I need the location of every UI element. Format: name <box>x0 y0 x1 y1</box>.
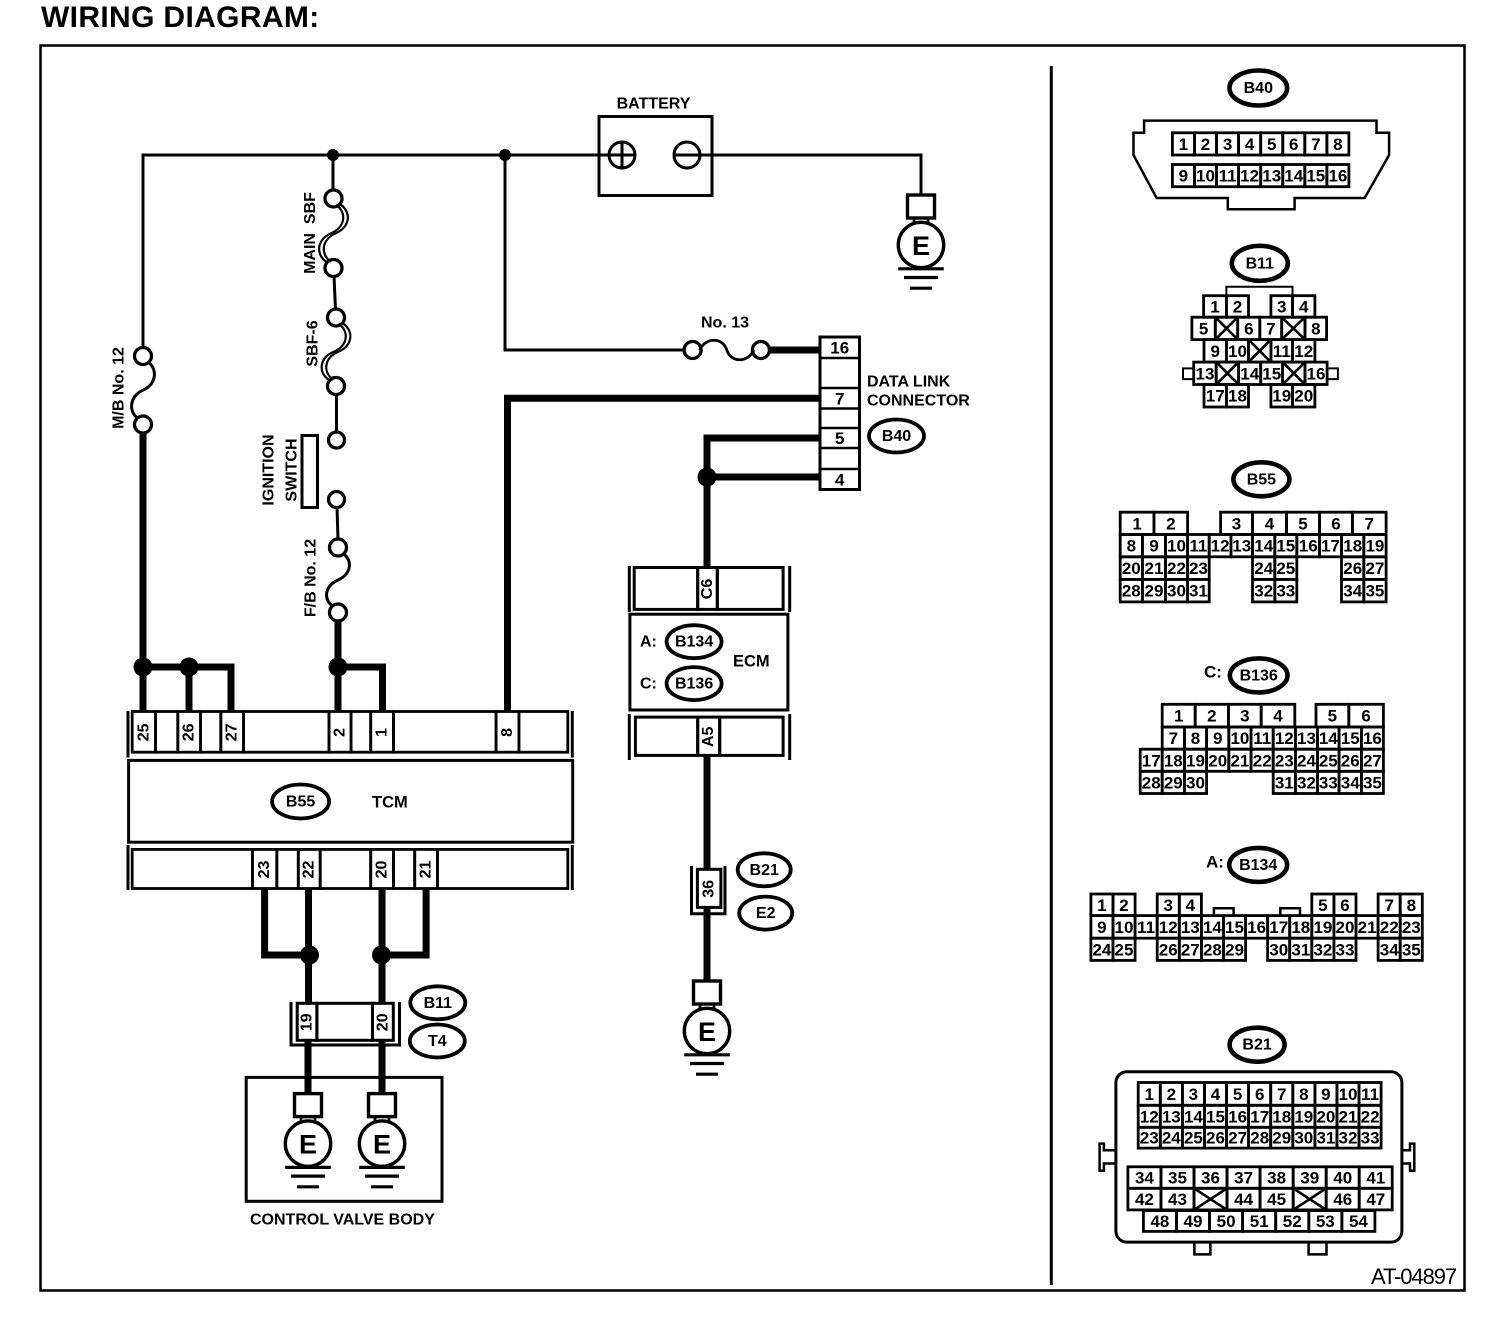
svg-text:8: 8 <box>1299 1085 1308 1104</box>
svg-text:CONTROL VALVE BODY: CONTROL VALVE BODY <box>250 1212 435 1229</box>
connector B40 pinout housing <box>1134 121 1390 210</box>
svg-text:35: 35 <box>1168 1169 1187 1188</box>
svg-text:6: 6 <box>1255 1085 1264 1104</box>
svg-text:34: 34 <box>1380 940 1399 959</box>
svg-text:2: 2 <box>1166 514 1175 533</box>
svg-text:38: 38 <box>1267 1169 1286 1188</box>
svg-text:22: 22 <box>1253 751 1272 770</box>
svg-text:21: 21 <box>1230 751 1249 770</box>
svg-text:42: 42 <box>1135 1190 1154 1209</box>
svg-text:AT-04897: AT-04897 <box>1371 1264 1457 1289</box>
svg-text:12: 12 <box>1159 918 1178 937</box>
svg-text:21: 21 <box>1358 918 1377 937</box>
svg-text:27: 27 <box>1363 751 1382 770</box>
B21 right key tab <box>1402 1144 1414 1171</box>
svg-text:5: 5 <box>1267 135 1276 154</box>
ground E (battery) <box>898 195 944 288</box>
svg-text:CONNECTOR: CONNECTOR <box>867 393 970 410</box>
svg-text:3: 3 <box>1163 896 1172 915</box>
junction 22/23 <box>300 946 319 965</box>
B55 pins 20-23 <box>1120 557 1142 580</box>
ECM connector row C6 <box>629 566 789 612</box>
B55 pins 3-7 <box>1221 512 1253 534</box>
junction at pin 25 <box>134 658 153 677</box>
svg-text:4: 4 <box>1265 514 1275 533</box>
svg-text:19: 19 <box>1294 1107 1313 1126</box>
svg-text:1: 1 <box>1174 707 1183 726</box>
junction 20/21 <box>372 946 391 965</box>
svg-text:37: 37 <box>1234 1169 1253 1188</box>
wire No.13 branch <box>505 155 684 350</box>
svg-text:19: 19 <box>1365 537 1384 556</box>
svg-text:18: 18 <box>1291 918 1310 937</box>
svg-text:21: 21 <box>1145 559 1164 578</box>
svg-text:14: 14 <box>1254 537 1273 556</box>
svg-text:15: 15 <box>1276 537 1295 556</box>
wire TCM pin 22 down to T4 pin 19 (thick) <box>305 889 312 1004</box>
svg-text:2: 2 <box>1167 1085 1176 1104</box>
B11 pins 1-4 <box>1204 296 1227 318</box>
svg-text:SWITCH: SWITCH <box>284 438 301 501</box>
svg-text:22: 22 <box>1361 1107 1380 1126</box>
svg-text:26: 26 <box>1206 1129 1225 1148</box>
svg-text:50: 50 <box>1217 1212 1236 1231</box>
B21 pins 48-54 <box>1143 1211 1176 1232</box>
fuse No. 13 <box>684 340 769 360</box>
svg-text:5: 5 <box>1199 319 1208 338</box>
svg-text:F/B No. 12: F/B No. 12 <box>303 539 320 617</box>
column divider <box>1050 66 1053 1285</box>
svg-text:11: 11 <box>1273 342 1291 361</box>
svg-text:B55: B55 <box>286 794 315 811</box>
svg-text:26: 26 <box>1341 751 1360 770</box>
svg-text:1: 1 <box>1179 135 1188 154</box>
svg-text:7: 7 <box>1277 1085 1286 1104</box>
inline connector 36 <box>692 866 726 914</box>
B134 pins 3-4 <box>1157 894 1179 916</box>
svg-text:13: 13 <box>1232 537 1251 556</box>
svg-text:B136: B136 <box>675 676 713 693</box>
svg-text:36: 36 <box>701 880 718 898</box>
svg-text:30: 30 <box>1186 773 1205 792</box>
svg-text:6: 6 <box>1331 514 1340 533</box>
svg-text:22: 22 <box>301 861 318 879</box>
oval B11 (pinout) <box>1232 246 1288 281</box>
svg-text:1: 1 <box>374 728 391 737</box>
svg-text:3: 3 <box>1223 135 1232 154</box>
svg-text:3: 3 <box>1232 514 1241 533</box>
ground E (E2) <box>684 981 730 1074</box>
svg-text:15: 15 <box>1306 167 1325 186</box>
B134 pins 1-2 <box>1091 894 1113 916</box>
TCM top connector row <box>128 711 572 758</box>
svg-text:10: 10 <box>1230 729 1249 748</box>
B11 pins 17-20 <box>1204 385 1226 408</box>
svg-text:4: 4 <box>1299 297 1309 316</box>
wire DLC pin 4 (thick) <box>707 474 820 481</box>
svg-text:16: 16 <box>1328 167 1347 186</box>
svg-text:19: 19 <box>1186 751 1205 770</box>
svg-text:25: 25 <box>1184 1129 1203 1148</box>
B55 pins 8-19 <box>1120 535 1142 557</box>
junction top-2 <box>499 149 511 161</box>
junction at pin 2 <box>329 658 348 677</box>
svg-text:4: 4 <box>835 470 845 489</box>
svg-text:29: 29 <box>1164 773 1183 792</box>
svg-text:19: 19 <box>299 1013 316 1031</box>
B134 top tabs <box>1214 908 1234 915</box>
fuse F/B No. 12 <box>327 539 350 621</box>
wire T4 pin 20 to valve body solenoid (thick) <box>379 1040 386 1093</box>
svg-text:53: 53 <box>1316 1212 1335 1231</box>
svg-text:33: 33 <box>1319 773 1338 792</box>
oval B21 (pinout) <box>1230 1028 1285 1062</box>
svg-text:A:: A: <box>1206 853 1224 872</box>
B136 pins 5-6 <box>1316 704 1349 727</box>
svg-text:B40: B40 <box>882 428 911 445</box>
oval B21 (schematic) <box>738 853 791 886</box>
B55 pins 26-27 <box>1342 557 1364 580</box>
svg-text:30: 30 <box>1167 582 1186 601</box>
svg-text:11: 11 <box>1253 729 1271 748</box>
B21 bottom tabs <box>1194 1242 1210 1254</box>
wire ECM A5 to connector 36 (thick) <box>704 755 711 869</box>
svg-text:16: 16 <box>1247 918 1266 937</box>
B134 pins 26-29 <box>1157 938 1179 960</box>
svg-text:4: 4 <box>1245 135 1255 154</box>
svg-text:39: 39 <box>1300 1169 1319 1188</box>
svg-text:10: 10 <box>1228 342 1247 361</box>
svg-text:4: 4 <box>1273 707 1283 726</box>
svg-text:18: 18 <box>1228 387 1247 406</box>
svg-text:34: 34 <box>1341 773 1360 792</box>
svg-text:6: 6 <box>1244 319 1253 338</box>
svg-text:E: E <box>912 231 930 261</box>
svg-text:9: 9 <box>1179 167 1188 186</box>
battery <box>599 96 712 196</box>
svg-text:45: 45 <box>1267 1190 1286 1209</box>
svg-text:33: 33 <box>1336 940 1355 959</box>
svg-text:30: 30 <box>1294 1129 1313 1148</box>
TCM bottom connector row <box>128 845 572 890</box>
svg-text:5: 5 <box>835 429 844 448</box>
svg-text:20: 20 <box>1336 918 1355 937</box>
svg-text:10: 10 <box>1339 1085 1358 1104</box>
svg-text:B11: B11 <box>424 995 453 1012</box>
svg-text:41: 41 <box>1366 1169 1385 1188</box>
svg-text:3: 3 <box>1240 707 1249 726</box>
svg-text:28: 28 <box>1142 773 1161 792</box>
svg-text:26: 26 <box>181 723 198 741</box>
svg-text:8: 8 <box>499 728 516 737</box>
svg-text:46: 46 <box>1333 1190 1352 1209</box>
svg-text:14: 14 <box>1240 364 1259 383</box>
svg-text:2: 2 <box>1233 297 1242 316</box>
oval B136 (pinout) <box>1230 658 1288 692</box>
svg-text:B134: B134 <box>675 634 713 651</box>
svg-text:32: 32 <box>1339 1129 1358 1148</box>
wire ignition switch to F/B No.12 <box>337 507 338 540</box>
wire F/B No.12 to TCM pin 2 (thick) <box>335 619 342 711</box>
ECM connector row A5 <box>629 714 789 760</box>
svg-text:16: 16 <box>1307 364 1326 383</box>
B136 pins 7-16 <box>1162 727 1184 749</box>
svg-text:8: 8 <box>1191 729 1200 748</box>
svg-text:23: 23 <box>256 861 273 879</box>
svg-text:23: 23 <box>1189 559 1208 578</box>
svg-text:48: 48 <box>1150 1212 1169 1231</box>
svg-text:23: 23 <box>1275 751 1294 770</box>
svg-text:13: 13 <box>1297 729 1316 748</box>
svg-text:17: 17 <box>1142 751 1161 770</box>
B11 pins 9-12 <box>1204 340 1226 363</box>
svg-text:35: 35 <box>1365 582 1384 601</box>
svg-text:25: 25 <box>1115 940 1134 959</box>
svg-text:C:: C: <box>1204 663 1222 682</box>
svg-text:B40: B40 <box>1244 80 1273 97</box>
svg-text:12: 12 <box>1275 729 1294 748</box>
svg-text:5: 5 <box>1318 896 1327 915</box>
svg-text:12: 12 <box>1294 342 1313 361</box>
svg-text:16: 16 <box>1363 729 1382 748</box>
wire branch to TCM pin 1 <box>338 667 383 711</box>
B55 pins 24-25 <box>1253 557 1275 580</box>
wire TCM junction bus 25-26-27 <box>143 667 231 711</box>
svg-text:BATTERY: BATTERY <box>617 96 691 113</box>
svg-text:15: 15 <box>1225 918 1244 937</box>
svg-text:2: 2 <box>332 728 349 737</box>
svg-text:4: 4 <box>1186 896 1196 915</box>
svg-text:12: 12 <box>1240 167 1259 186</box>
svg-text:40: 40 <box>1333 1169 1352 1188</box>
B134 pins 7-8 <box>1378 894 1400 916</box>
svg-text:20: 20 <box>1294 387 1313 406</box>
B55 pins 1-2 <box>1120 512 1154 534</box>
svg-text:B134: B134 <box>1239 857 1277 874</box>
svg-text:5: 5 <box>1233 1085 1242 1104</box>
B11 pins 13-16 <box>1194 362 1217 384</box>
junction top-1 <box>327 149 339 161</box>
svg-text:M/B No. 12: M/B No. 12 <box>111 347 128 429</box>
svg-text:ECM: ECM <box>733 653 770 671</box>
svg-text:26: 26 <box>1159 940 1178 959</box>
ignition switch <box>302 432 345 508</box>
svg-text:34: 34 <box>1135 1169 1154 1188</box>
svg-text:44: 44 <box>1234 1190 1253 1209</box>
B40 pins 1-8 <box>1172 133 1194 155</box>
wire TCM pin 23 down (thick) <box>265 889 310 956</box>
svg-text:12: 12 <box>1140 1107 1159 1126</box>
fuse SBF-6 <box>322 309 351 395</box>
svg-text:15: 15 <box>1341 729 1360 748</box>
svg-text:17: 17 <box>1206 387 1225 406</box>
svg-text:A:: A: <box>640 634 657 651</box>
svg-text:33: 33 <box>1361 1129 1380 1148</box>
svg-text:17: 17 <box>1269 918 1288 937</box>
svg-text:10: 10 <box>1167 537 1186 556</box>
wire DLC pin 7 to TCM pin 8 (thick) <box>508 398 821 711</box>
svg-text:TCM: TCM <box>372 794 408 812</box>
B55 pins 32-33 <box>1253 579 1275 602</box>
oval B55 (TCM) <box>272 785 329 819</box>
B134 pins 24-25 <box>1091 938 1113 960</box>
svg-text:C:: C: <box>640 676 657 693</box>
svg-text:SBF-6: SBF-6 <box>305 320 322 366</box>
svg-text:18: 18 <box>1164 751 1183 770</box>
svg-text:5: 5 <box>1328 707 1337 726</box>
B136 pins 28-30 <box>1140 771 1162 793</box>
svg-text:E2: E2 <box>756 905 776 922</box>
oval B55 (pinout) <box>1233 462 1289 496</box>
svg-text:13: 13 <box>1181 918 1200 937</box>
ECM body <box>630 614 788 710</box>
svg-text:27: 27 <box>224 723 241 741</box>
svg-text:9: 9 <box>1210 342 1219 361</box>
svg-text:7: 7 <box>1384 896 1393 915</box>
svg-text:20: 20 <box>1122 559 1141 578</box>
svg-text:3: 3 <box>1277 297 1286 316</box>
svg-text:18: 18 <box>1272 1107 1291 1126</box>
oval E2 (schematic) <box>739 897 792 930</box>
svg-text:15: 15 <box>1262 364 1281 383</box>
svg-text:9: 9 <box>1321 1085 1330 1104</box>
svg-text:35: 35 <box>1402 940 1421 959</box>
inline connector B11/T4 <box>291 1002 400 1045</box>
control valve body <box>246 1077 442 1201</box>
connector B21 housing <box>1116 1072 1402 1242</box>
svg-text:14: 14 <box>1203 918 1222 937</box>
svg-text:9: 9 <box>1097 918 1106 937</box>
B136 pins 17-27 <box>1140 749 1162 771</box>
wire DLC pin 5 and drop to ECM C6 (thick) <box>707 438 820 568</box>
svg-text:25: 25 <box>1319 751 1338 770</box>
svg-text:7: 7 <box>1169 729 1178 748</box>
svg-text:43: 43 <box>1168 1190 1187 1209</box>
svg-text:32: 32 <box>1297 773 1316 792</box>
svg-text:B21: B21 <box>1242 1037 1271 1054</box>
B40 pins 9-16 <box>1172 165 1194 187</box>
svg-text:17: 17 <box>1321 537 1340 556</box>
svg-text:18: 18 <box>1343 537 1362 556</box>
svg-text:54: 54 <box>1349 1212 1368 1231</box>
svg-text:23: 23 <box>1140 1129 1159 1148</box>
wire M/B No.12 to TCM pin 25 (thick) <box>140 430 147 711</box>
B11 pins 5-8 <box>1192 317 1215 339</box>
svg-text:16: 16 <box>830 339 849 358</box>
svg-text:22: 22 <box>1380 918 1399 937</box>
B134 pins 34-35 <box>1378 938 1400 960</box>
data link connector B40 <box>820 337 860 490</box>
svg-text:35: 35 <box>1363 773 1382 792</box>
svg-text:A5: A5 <box>700 726 717 747</box>
wire No.13 fuse to DLC pin 16 (thick) <box>769 347 820 354</box>
svg-text:16: 16 <box>1228 1107 1247 1126</box>
fuse M/B No. 12 <box>132 348 155 434</box>
svg-text:27: 27 <box>1228 1129 1247 1148</box>
svg-text:20: 20 <box>374 861 391 879</box>
svg-text:8: 8 <box>1127 537 1136 556</box>
svg-text:7: 7 <box>1266 319 1275 338</box>
B55 pins 34-35 <box>1342 579 1364 602</box>
svg-text:E: E <box>698 1017 716 1047</box>
svg-text:20: 20 <box>374 1013 391 1031</box>
svg-text:B21: B21 <box>750 862 779 879</box>
svg-text:7: 7 <box>1311 135 1320 154</box>
svg-text:13: 13 <box>1196 364 1215 383</box>
svg-text:14: 14 <box>1184 1107 1203 1126</box>
svg-text:12: 12 <box>1211 537 1230 556</box>
ground E (solenoid 2) <box>359 1094 405 1187</box>
svg-text:20: 20 <box>1208 751 1227 770</box>
svg-text:8: 8 <box>1311 319 1320 338</box>
svg-text:1: 1 <box>1144 1085 1153 1104</box>
connector B11 top tab <box>1226 287 1292 296</box>
svg-text:25: 25 <box>1276 559 1295 578</box>
oval B134 (pinout) <box>1229 848 1287 882</box>
svg-text:8: 8 <box>1407 896 1416 915</box>
svg-text:28: 28 <box>1250 1129 1269 1148</box>
svg-text:27: 27 <box>1365 559 1384 578</box>
B134 pins 5-6 <box>1312 894 1334 916</box>
svg-text:5: 5 <box>1298 514 1307 533</box>
svg-text:29: 29 <box>1225 940 1244 959</box>
svg-text:WIRING DIAGRAM:: WIRING DIAGRAM: <box>41 1 320 34</box>
svg-text:DATA LINK: DATA LINK <box>867 374 951 391</box>
oval B134 (ECM) <box>667 625 722 658</box>
svg-text:28: 28 <box>1122 582 1141 601</box>
svg-text:B11: B11 <box>1246 255 1275 272</box>
svg-text:25: 25 <box>135 723 152 741</box>
svg-text:6: 6 <box>1361 707 1370 726</box>
svg-text:19: 19 <box>1313 918 1332 937</box>
wire TCM pin 20 down to T4 pin 20 (thick) <box>379 889 386 1004</box>
svg-text:31: 31 <box>1316 1129 1335 1148</box>
B21 pins 23-33 <box>1138 1127 1160 1148</box>
svg-text:MAIN SBF: MAIN SBF <box>302 192 319 274</box>
svg-text:14: 14 <box>1319 729 1338 748</box>
svg-text:3: 3 <box>1189 1085 1198 1104</box>
svg-text:27: 27 <box>1181 940 1200 959</box>
svg-text:13: 13 <box>1162 1107 1181 1126</box>
B21 pins 12-22 <box>1138 1105 1160 1127</box>
B55 pins 28-31 <box>1120 579 1142 602</box>
svg-text:24: 24 <box>1297 751 1316 770</box>
svg-text:32: 32 <box>1313 940 1332 959</box>
svg-text:T4: T4 <box>428 1033 447 1050</box>
TCM body <box>129 760 573 842</box>
svg-text:1: 1 <box>1210 297 1219 316</box>
svg-text:2: 2 <box>1201 135 1210 154</box>
svg-text:11: 11 <box>1361 1085 1379 1104</box>
svg-text:24: 24 <box>1162 1129 1181 1148</box>
svg-text:13: 13 <box>1262 167 1281 186</box>
svg-text:2: 2 <box>1119 896 1128 915</box>
B21 pins 42-47 <box>1128 1188 1161 1210</box>
svg-text:17: 17 <box>1250 1107 1269 1126</box>
svg-text:49: 49 <box>1184 1212 1203 1231</box>
svg-text:11: 11 <box>1137 918 1155 937</box>
svg-text:No. 13: No. 13 <box>701 315 749 332</box>
svg-text:8: 8 <box>1333 135 1342 154</box>
svg-text:14: 14 <box>1284 167 1303 186</box>
svg-text:33: 33 <box>1276 582 1295 601</box>
svg-text:30: 30 <box>1269 940 1288 959</box>
svg-text:26: 26 <box>1343 559 1362 578</box>
svg-text:7: 7 <box>835 389 844 408</box>
svg-text:20: 20 <box>1316 1107 1335 1126</box>
svg-text:34: 34 <box>1343 582 1362 601</box>
B21 left key tab <box>1100 1144 1116 1171</box>
